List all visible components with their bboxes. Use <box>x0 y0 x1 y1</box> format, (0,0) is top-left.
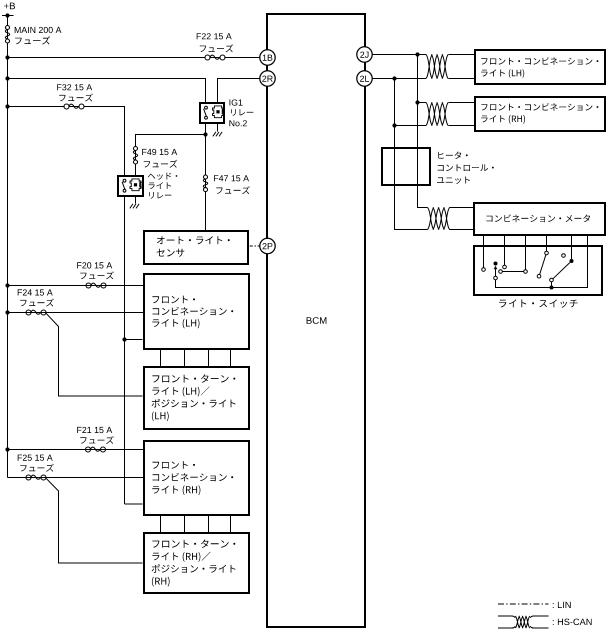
junction switch bus <box>550 286 554 290</box>
box light switch <box>474 246 602 295</box>
wire CAN-L from 2L <box>372 78 426 80</box>
box BCM body control module <box>267 14 365 627</box>
box front combination light RH <box>144 441 249 515</box>
terminal 2L <box>357 71 372 86</box>
label front turn RH line4 <box>152 577 170 587</box>
contact switch terminal 1 <box>482 268 486 272</box>
wire CAN-L to LH light <box>449 78 476 80</box>
junction bus to F24 <box>5 310 9 314</box>
junction CAN-L branch 1 <box>392 76 396 80</box>
label front turn LH line1 <box>152 374 235 382</box>
contact switch terminal 3 <box>524 270 528 274</box>
contact switch terminal 4 <box>545 251 549 255</box>
wire CAN-L branch down 1 <box>394 79 396 126</box>
fuse MAIN 200 A <box>5 26 9 44</box>
junction bus to F21 <box>5 447 9 451</box>
label heater line1 <box>438 152 467 160</box>
label heater line3 <box>437 177 470 184</box>
terminal 2R <box>260 71 275 86</box>
wire headlight relay coil to ground <box>135 196 137 204</box>
label F25 fuse (jp) <box>20 464 54 472</box>
wire CAN-L to combination meter <box>450 229 475 231</box>
wire CAN-L through heater unit <box>395 126 428 230</box>
label IG1 <box>230 100 243 106</box>
label No.2 <box>229 120 246 126</box>
wire headlight relay contact output down <box>124 196 126 504</box>
contact switch lever 5 end <box>550 278 554 282</box>
wire switch lever 5 <box>553 263 570 279</box>
contact switch terminal 2b <box>499 270 503 274</box>
wire IG1 contact output down <box>205 123 207 231</box>
wire meter to switch 2 <box>504 235 506 266</box>
label F25 15 A <box>18 455 53 461</box>
terminal 2P <box>260 238 275 253</box>
contact switch terminal 2 <box>503 265 507 269</box>
label front combination LH line3 <box>152 319 199 329</box>
junction bus to F20 <box>5 283 9 287</box>
label F24 fuse (jp) <box>20 299 54 307</box>
junction bus to F32 wire <box>5 104 9 108</box>
contact switch lever 4 end <box>537 274 541 278</box>
label F32 15 A <box>57 84 92 90</box>
box front turn light RH <box>144 533 249 593</box>
label right RH line1 <box>481 103 598 111</box>
label +B battery feed <box>4 3 15 10</box>
wire connector RH lights 2 <box>184 515 186 533</box>
label MAIN fuse (jp) <box>15 36 50 44</box>
label F21 fuse (jp) <box>80 436 114 444</box>
fuse F32 15 A <box>64 104 84 109</box>
wire F20 to LH combination light <box>8 285 144 287</box>
wire F24 branch to LH turn light <box>46 313 143 396</box>
wire IG1 coil to ground <box>217 123 219 132</box>
box heater control unit <box>382 148 430 185</box>
label front combination LH line1 <box>152 296 195 304</box>
wire legend HS-CAN symbol <box>498 616 549 628</box>
label headlight relay line2 <box>149 182 171 189</box>
wire CAN-H from 2J <box>372 54 426 56</box>
label BCM <box>307 317 327 324</box>
label MAIN 200 A <box>15 27 62 33</box>
wire bus to IG1 relay contact <box>8 79 206 104</box>
label F21 15 A <box>77 427 112 433</box>
junction IG1 output node <box>203 132 207 136</box>
label IG1 relay (jp) <box>231 109 253 116</box>
junction bus to 1B wire <box>5 55 9 59</box>
label front turn RH line1 <box>152 540 235 548</box>
label combination meter <box>486 214 590 222</box>
fuse F21 15 A <box>86 447 106 452</box>
twisted pair HS-CAN to LH light <box>426 55 448 79</box>
junction bus to relay contact wire <box>5 76 9 80</box>
wire meter to switch 3 <box>525 235 527 270</box>
wire +B bus vertical <box>7 16 9 478</box>
contact switch lever spring end <box>494 276 498 280</box>
wire CAN-H to combination meter <box>450 207 475 209</box>
label front combination LH line2 <box>153 307 234 315</box>
wire CAN-H to RH light <box>449 102 476 104</box>
label F49 15 A <box>142 149 177 155</box>
label front turn LH line4 <box>152 412 169 422</box>
wire bus through F32 to headlight relay <box>8 107 125 177</box>
label headlight relay line1 <box>148 173 177 180</box>
label F20 15 A <box>77 262 112 268</box>
wire connector LH lights 1 <box>160 349 162 367</box>
label right LH line1 <box>481 57 598 65</box>
ground IG1 relay coil <box>213 132 222 137</box>
label headlight relay line3 <box>149 192 171 199</box>
wire meter to switch 1 <box>483 235 485 268</box>
twisted pair HS-CAN to combination meter <box>428 208 450 230</box>
junction CAN-H branch 2 <box>415 100 419 104</box>
wire meter to switch 4 <box>546 235 548 252</box>
label F22 fuse (jp) <box>200 44 234 52</box>
junction switch pivot <box>494 262 498 266</box>
label light switch <box>499 299 578 307</box>
junction headlight feed to LH light <box>122 337 126 341</box>
junction CAN-L branch 2 <box>392 123 396 127</box>
label heater line2 <box>438 164 494 171</box>
wire CAN-H through heater unit <box>418 103 428 208</box>
box auto light sensor <box>144 231 248 264</box>
wire connector RH lights 4 <box>230 515 232 533</box>
junction switch common 5 <box>570 259 574 263</box>
label front turn LH line3 <box>152 399 236 408</box>
label F20 fuse (jp) <box>80 271 114 279</box>
wire CAN-H to LH light <box>449 54 476 56</box>
box front combination light LH (right) <box>475 50 605 84</box>
label auto light sensor line1 <box>157 236 230 244</box>
terminal 2J <box>357 47 372 62</box>
label legend HS-CAN <box>553 619 592 626</box>
label right LH line2 <box>481 69 524 78</box>
label F32 fuse (jp) <box>59 94 93 102</box>
wire stub to RH combination light <box>125 503 143 505</box>
label F49 fuse (jp) <box>144 160 178 168</box>
label F24 15 A <box>18 289 53 295</box>
wire CAN-L to RH light <box>449 125 476 127</box>
wire connector LH lights 4 <box>230 349 232 367</box>
wire +B terminal bar <box>2 15 14 17</box>
terminal 1B <box>260 50 275 65</box>
wire switch closed contact link <box>502 271 523 273</box>
wire F24 to LH combination light <box>8 312 144 314</box>
label F47 fuse (jp) <box>216 186 250 194</box>
wire F25 to RH combination light <box>8 477 144 479</box>
wire connector RH lights 1 <box>160 515 162 533</box>
box front combination light LH <box>144 274 249 349</box>
ground headlight relay coil <box>130 204 139 209</box>
wire CAN-L to twist 2 <box>395 125 427 127</box>
relay headlight <box>118 176 143 196</box>
wire legend LIN line <box>498 603 549 605</box>
label front turn RH line3 <box>152 564 236 573</box>
relay IG1 No.2 <box>200 103 224 123</box>
wire connector RH lights 3 <box>208 515 210 533</box>
wire meter to switch 6 via right side <box>496 235 588 288</box>
twisted pair HS-CAN to RH light <box>426 103 448 126</box>
label front turn LH line2 <box>152 387 209 397</box>
wire meter to switch 5 <box>571 235 573 260</box>
wire switch spring lever with arrow <box>494 266 498 277</box>
wire switch lever 4 <box>540 255 546 275</box>
wire F25 branch to RH turn light <box>46 478 143 563</box>
label front combination RH line1 <box>152 461 195 469</box>
wire stub to LH combination light <box>125 339 143 341</box>
wire bus to terminal 1B <box>8 57 260 59</box>
label right RH line2 <box>481 115 525 124</box>
label F22 15 A <box>197 33 232 39</box>
fuse F22 15 A <box>205 55 225 60</box>
label front combination RH line2 <box>153 473 234 481</box>
wire CAN-H branch down 1 <box>417 55 419 103</box>
fuse F49 15 A <box>133 147 137 165</box>
box combination meter <box>474 203 605 235</box>
box front combination light RH (right) <box>475 97 605 131</box>
fuse F47 15 A <box>203 175 207 192</box>
label front turn RH line2 <box>152 552 210 562</box>
label F47 15 A <box>214 175 249 181</box>
contact switch isolated <box>562 254 566 258</box>
wire F21 to RH combination light <box>8 449 144 451</box>
junction +B <box>5 13 9 17</box>
wire terminal 2R to IG1 relay coil <box>218 79 260 104</box>
wire LIN dash-dot sensor to 2P <box>250 245 260 247</box>
label auto light sensor line2 <box>157 249 185 257</box>
fuse F25 15 A <box>26 475 46 480</box>
wire connector LH lights 2 <box>184 349 186 367</box>
fuse F20 15 A <box>86 283 106 288</box>
label front combination RH line3 <box>152 485 200 495</box>
wire CAN-H to twist 2 <box>418 102 427 104</box>
label legend LIN <box>553 602 571 608</box>
wire IG1 output to F49 branch <box>136 135 206 177</box>
junction CAN-H branch 1 <box>415 52 419 56</box>
box front turn light LH <box>144 367 249 429</box>
fuse F24 15 A <box>26 310 46 315</box>
wire switch 5 to bus <box>551 282 553 288</box>
wire connector LH lights 3 <box>208 349 210 367</box>
